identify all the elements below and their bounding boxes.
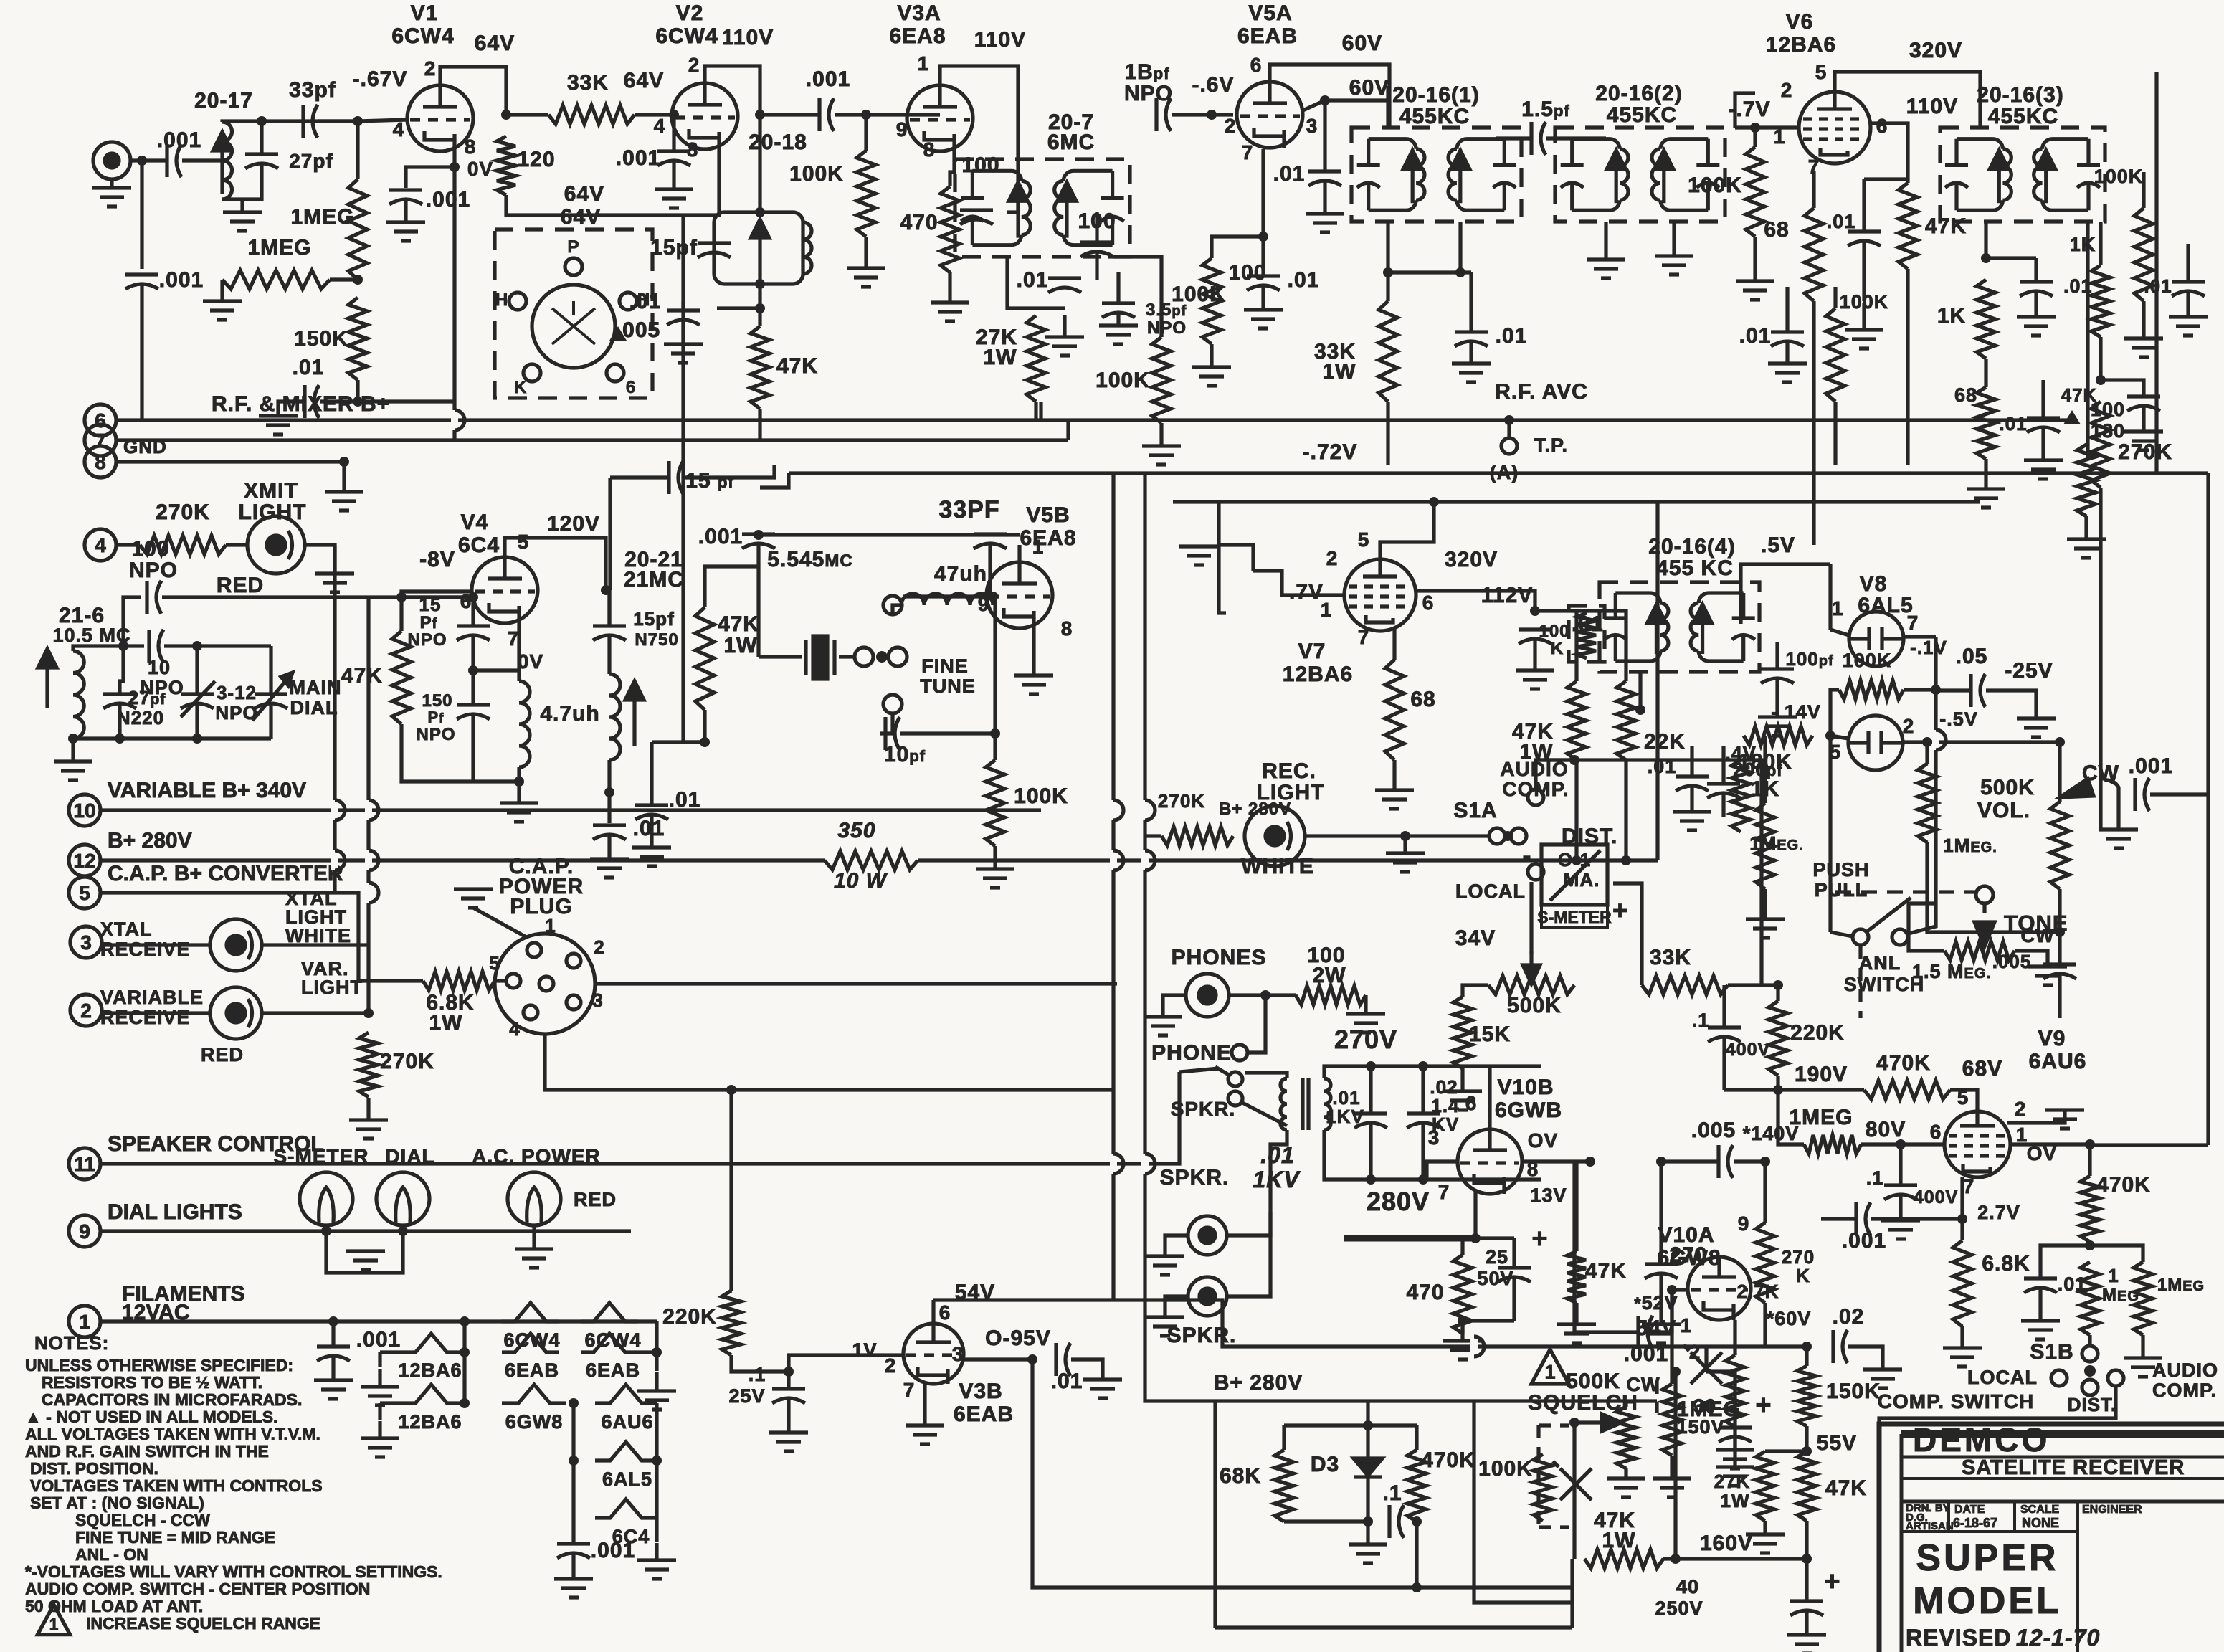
wire antenna rail down: [140, 161, 143, 269]
wire spkr jack upper gnd: [1165, 1235, 1188, 1255]
svg-text:VARIABLE: VARIABLE: [100, 987, 204, 1008]
svg-text:64V: 64V: [564, 182, 604, 206]
wire D3 bottom gnd: [1366, 1522, 1369, 1543]
wire 2.7K top: [1733, 1320, 1736, 1355]
wire 1K to cap: [2101, 380, 2144, 397]
capacitor 10pf: [885, 717, 900, 750]
svg-text:-25V: -25V: [2005, 659, 2053, 683]
svg-text:12-1-70: 12-1-70: [2016, 1625, 2100, 1651]
wire V1 cathode rail down: [452, 167, 456, 402]
svg-text:S1A: S1A: [1453, 799, 1497, 822]
wire V5B grid left rail: [903, 594, 987, 598]
wire cap to tank: [182, 158, 222, 162]
wire V2 cathode to 64V lower: [683, 149, 719, 215]
ground below can2 left: [1587, 260, 1625, 278]
ground below 4.7uh choke: [500, 803, 538, 822]
transformer 20-16(1) 455KC tuning arrow 1: [1403, 151, 1422, 204]
wire 270K to xmit light: [226, 543, 247, 546]
wire comp node to resistors: [2090, 1245, 2143, 1262]
wire grid to 1MEG: [356, 121, 359, 179]
wire 2.7K bottom gnd: [1733, 1427, 1736, 1448]
triode V4 6C4: [472, 557, 538, 623]
wire 270 bottom: [1659, 1274, 1663, 1323]
wire .01 V5B bottom: [650, 815, 653, 846]
svg-text:68: 68: [1410, 688, 1435, 711]
wire ac lamp to gnd: [532, 1225, 536, 1248]
wire 3.5pf top: [1116, 272, 1120, 303]
capacitor .01 mid column: [2027, 418, 2060, 432]
terminal 4 XMIT: [85, 529, 116, 561]
svg-text:LIGHT: LIGHT: [301, 977, 363, 998]
junction antenna node: [137, 156, 147, 166]
wire tone pot right gnd: [2015, 951, 2048, 965]
switch S1A pole: [1489, 828, 1505, 844]
wire 64V lower rail drop: [681, 215, 685, 301]
svg-text:100K: 100K: [2094, 166, 2144, 187]
capacitor .001 antenna coupling: [167, 144, 181, 177]
svg-text:K: K: [1551, 639, 1564, 658]
wire 27K right top: [1765, 1449, 1807, 1453]
junction V1 cathode 0V: [450, 162, 460, 172]
ground below .01 IF: [1452, 364, 1491, 382]
socket pin H left: [509, 293, 526, 310]
svg-text:4: 4: [393, 118, 405, 141]
wire tank bottom rail: [73, 736, 271, 740]
capacitor .01 V6 cathode: [1848, 232, 1881, 246]
lamp S-METER: [300, 1172, 353, 1225]
svg-text:S1B: S1B: [2030, 1340, 2073, 1364]
resistor 68 right column: [1977, 387, 1995, 459]
junction V4 cathode node: [468, 665, 478, 675]
wire avc left drop: [760, 473, 789, 488]
transformer 20-7 6MC tuning arrow 2: [1058, 182, 1076, 237]
fine tune switch pole: [855, 647, 873, 666]
capacitor 15pf at 20-18: [698, 243, 731, 257]
ground below dial lamps: [346, 1251, 385, 1270]
filament hump 12BA6 a: [398, 1334, 465, 1352]
svg-text:320V: 320V: [1909, 39, 1962, 62]
svg-text:5: 5: [1815, 61, 1828, 83]
ground below .01 osc: [590, 859, 629, 878]
svg-text:1: 1: [79, 1311, 90, 1333]
svg-text:.1: .1: [1692, 1010, 1710, 1031]
resistor 1.5MEG tone: [1944, 941, 2015, 960]
wire 100 bottom gnd: [1210, 344, 1213, 366]
svg-text:54V: 54V: [1636, 1316, 1676, 1340]
wire V3A plate to 110V rail: [940, 66, 1018, 212]
svg-text:150: 150: [422, 691, 452, 711]
svg-text:6EA8: 6EA8: [889, 24, 946, 48]
junction V3B out: [1027, 1354, 1037, 1364]
wire V4 grid rail: [401, 592, 472, 597]
wire V2 110 node down to 20-18: [758, 115, 761, 212]
wire V5A cath node to 100: [1212, 237, 1263, 258]
wire V8B right lead: [1903, 740, 2060, 744]
junction 33K 220K: [1773, 980, 1783, 990]
svg-text:112V: 112V: [1481, 584, 1533, 607]
capacitor .001 V10A: [1638, 1316, 1653, 1349]
svg-text:NPO: NPO: [129, 559, 178, 582]
dashed box 100K det: [1569, 606, 1605, 662]
main dial arrow: [252, 673, 293, 721]
svg-text:V10A: V10A: [1658, 1223, 1714, 1247]
junction V10B cathode: [1470, 1233, 1481, 1243]
svg-text:ANL: ANL: [1859, 952, 1901, 974]
capacitor .001 V2 grid: [657, 151, 690, 166]
wire .01 can3a top: [2034, 258, 2038, 282]
capacitor 15pf V5B: [669, 461, 683, 494]
bus B+ 280V left segment: [100, 858, 825, 862]
svg-text:.01: .01: [1017, 268, 1049, 292]
socket pin G: [607, 364, 624, 381]
wire D3 anode lead: [1366, 1425, 1369, 1458]
wire 10NPO to trimmer rail: [164, 644, 271, 647]
svg-text:1W: 1W: [429, 1011, 463, 1035]
junction V5B rail top: [754, 530, 764, 540]
ground at V9 pin2: [2045, 1110, 2084, 1129]
svg-text:33K: 33K: [1650, 946, 1691, 969]
wire V3B out down long: [1032, 1359, 1417, 1587]
svg-text:455KC: 455KC: [1988, 105, 2058, 128]
V7 grid gnd hook: [1219, 545, 1253, 571]
wire squelch left vertical lower: [1570, 1559, 1574, 1628]
svg-text:64V: 64V: [624, 69, 664, 92]
warning triangle notes: [37, 1605, 70, 1635]
junction tank bottom a: [115, 734, 125, 744]
ground below 100 V5A: [1192, 367, 1231, 386]
wire .005 top: [2058, 932, 2061, 964]
wire squelch left vertical: [1572, 1423, 1576, 1559]
wire can3 right down: [2086, 222, 2089, 459]
wire 1MEG det bottom: [1763, 889, 1767, 918]
svg-text:100K: 100K: [1096, 369, 1150, 392]
capacitor .01 at V5A: [1308, 171, 1341, 186]
capacitor .05 ANL: [1971, 674, 1985, 707]
wire filament cap bottom: [331, 1357, 335, 1379]
transformer secondary coil: [1324, 1078, 1331, 1130]
wire 20-21 bottom lead: [607, 760, 611, 792]
svg-text:.005: .005: [1691, 1119, 1736, 1142]
wire .1 400v top: [1722, 985, 1726, 1027]
wire .01 V7 screen gnd: [1533, 640, 1536, 669]
svg-text:CAPACITORS IN MICROFARADS.: CAPACITORS IN MICROFARADS.: [42, 1390, 302, 1409]
wire .1 400v bottom: [1722, 1038, 1726, 1090]
transformer core lines: [1303, 1078, 1308, 1130]
svg-text:12BA6: 12BA6: [398, 1359, 462, 1381]
wire .1 V3B bottom: [787, 1399, 790, 1431]
switch S1B audio comp: [2108, 1370, 2124, 1386]
wire squelch pot top to bus: [1624, 1401, 1627, 1407]
ground below 270K: [349, 1098, 388, 1139]
resistor 470K D3: [1407, 1450, 1426, 1522]
svg-text:400V: 400V: [1726, 1040, 1770, 1060]
junction 54V at 150K: [1802, 1342, 1812, 1352]
transformer 20-16(1) 455KC tuning arrow 2: [1451, 151, 1470, 204]
wire row5 right gnd: [655, 1518, 658, 1542]
junction 270 top: [1656, 1157, 1666, 1167]
wire .02 top: [1421, 1066, 1425, 1114]
transformer 20-16(2) 455KC tuning arrow 2: [1655, 151, 1673, 204]
svg-text:6AU6: 6AU6: [2029, 1050, 2087, 1073]
wire 120V rail to 33K 1W: [606, 590, 609, 626]
wire squelch pot bottom gnd: [1624, 1468, 1627, 1477]
bus B+280V after 350: [918, 858, 1117, 862]
wire 150pf bottom lead: [471, 715, 475, 782]
svg-text:8: 8: [923, 138, 936, 161]
svg-text:FINE TUNE = MID RANGE: FINE TUNE = MID RANGE: [75, 1528, 275, 1547]
hop x514 over bus12: [369, 850, 379, 870]
svg-text:60V: 60V: [1349, 76, 1389, 100]
capacitor .01 V3B out: [1056, 1343, 1070, 1376]
wire can1 bottom left down: [1386, 222, 1389, 272]
svg-text:2.7V: 2.7V: [1977, 1202, 2020, 1223]
wire V2 plate to 110V rail: [705, 66, 760, 115]
svg-text:120: 120: [517, 148, 555, 171]
junction V10A grid node: [1760, 1157, 1770, 1167]
svg-text:SUPER: SUPER: [1916, 1537, 2058, 1579]
svg-text:XTAL: XTAL: [100, 918, 153, 940]
capacitor .005 coupling: [1719, 1145, 1733, 1178]
resistor 270K rec light: [1161, 827, 1233, 845]
capacitor 100 under can: [1080, 242, 1113, 257]
wire D3 cathode lead: [1366, 1477, 1369, 1522]
ground below .01 V6: [1845, 303, 1883, 348]
coil 4.7uh choke: [519, 681, 530, 767]
wire vol cw to gnd: [2116, 787, 2120, 828]
wire plug right to long rail: [595, 982, 1117, 985]
svg-text:COMP.: COMP.: [2152, 1380, 2217, 1401]
resistor 270K V10A grid: [1756, 1223, 1774, 1303]
svg-text:V6: V6: [1786, 10, 1814, 34]
junction 47K top: [755, 303, 765, 313]
wire xtal jack to light rail: [262, 943, 369, 946]
svg-text:33PF: 33PF: [938, 496, 999, 523]
wire 47K bottom lead: [401, 724, 473, 782]
svg-text:PULL: PULL: [1815, 879, 1868, 901]
terminal 7: [85, 424, 116, 456]
svg-text:20-16(3): 20-16(3): [1977, 83, 2063, 107]
svg-text:Pf: Pf: [427, 708, 444, 726]
junction row2 mid: [460, 1347, 470, 1357]
junction 60V node: [1320, 95, 1330, 105]
tone pot wiper arrow: [1974, 903, 1995, 946]
socket pin K: [523, 364, 541, 381]
ground below V1 bypass cap: [386, 222, 425, 241]
svg-text:2: 2: [594, 936, 604, 958]
svg-text:SATELITE RECEIVER: SATELITE RECEIVER: [1962, 1456, 2185, 1479]
svg-text:13V: 13V: [1530, 1185, 1567, 1206]
svg-text:47K: 47K: [1585, 1259, 1627, 1283]
hop x1597 over bus12: [1145, 850, 1155, 870]
wire .001 V5B top: [756, 534, 760, 535]
junction V9 cathode node: [1957, 1214, 1967, 1224]
resistor 1MEG anl: [1918, 764, 1937, 842]
wire 33PF top: [988, 534, 992, 535]
svg-text:68K: 68K: [1220, 1464, 1261, 1488]
ground below .001 V2: [655, 189, 693, 208]
junction 150K bottom node: [353, 397, 363, 407]
wire V9 pin1 right: [2010, 1142, 2090, 1146]
wire row3 to row4 right: [655, 1403, 658, 1461]
svg-text:RED: RED: [201, 1044, 244, 1065]
svg-text:SCALE: SCALE: [2020, 1504, 2060, 1516]
socket pin H right: [619, 293, 637, 310]
bus CAP B+ converter: [100, 891, 335, 894]
wire .01 1K gnd: [2142, 407, 2145, 430]
svg-text:1K: 1K: [2070, 234, 2096, 255]
svg-text:470K: 470K: [1876, 1051, 1931, 1075]
wire terminal 2 to var jack: [102, 1011, 210, 1015]
wire 1MEG anl top: [1925, 742, 1929, 764]
resistor 500K squelch pot: [1617, 1407, 1635, 1468]
title line above cells: [1901, 1500, 2224, 1504]
junction var light rail: [363, 1008, 374, 1018]
ground below .01 comp: [2021, 1321, 2060, 1339]
svg-text:20-16(1): 20-16(1): [1392, 83, 1479, 107]
svg-text:30: 30: [1693, 1395, 1716, 1417]
svg-text:SET AT : (NO SIGNAL): SET AT : (NO SIGNAL): [30, 1494, 204, 1512]
wire .001 V9 left: [1821, 1217, 1857, 1220]
ground below 2.7K: [1716, 1450, 1754, 1468]
svg-text:4: 4: [509, 1018, 520, 1040]
wire phone term right up: [1248, 995, 1265, 1053]
wire 15pf NPO bottom: [471, 636, 475, 670]
svg-text:.7V: .7V: [1289, 580, 1324, 604]
ground below .01 can2: [1768, 364, 1807, 382]
svg-text:7: 7: [1438, 1181, 1450, 1203]
resistor 1K IF: [1977, 280, 1995, 359]
wire junction down to bus: [399, 399, 403, 403]
wire .01 comp bottom: [2038, 1288, 2042, 1319]
wire 100pf bottom: [1775, 679, 1779, 716]
wire V5A cathode down: [1261, 149, 1265, 276]
pentode V7 12BA6: [1344, 559, 1416, 631]
wire main dial bottom lead: [269, 704, 272, 739]
svg-text:100: 100: [1539, 622, 1569, 641]
ANL dashed drop: [1858, 946, 1862, 1018]
plug pin 1: [527, 943, 541, 957]
wire .02 54V right: [1848, 1347, 1883, 1368]
resistor 22K V7: [1617, 681, 1635, 760]
wire V7 top rail: [1173, 500, 1658, 503]
transformer 20-16(4) 455KC: [1600, 582, 1759, 672]
junction V10B out: [1585, 1157, 1595, 1167]
wire filament row2 join: [380, 1350, 398, 1354]
wire comp switch wire: [1879, 1386, 2116, 1424]
wire .01 1KV top: [1369, 1066, 1372, 1114]
svg-text:3: 3: [1306, 115, 1318, 137]
svg-text:FINE: FINE: [921, 655, 969, 677]
junction V1 grid: [353, 116, 363, 126]
svg-text:9: 9: [1738, 1212, 1750, 1235]
svg-text:9: 9: [79, 1220, 90, 1243]
svg-text:64V: 64V: [475, 32, 515, 55]
ground V7 grid hook: [1179, 546, 1218, 565]
hop x2056 over b280 speaker line: [1474, 1337, 1484, 1357]
resistor 47K 1W V5B: [695, 607, 714, 710]
wire det can bottom left: [1638, 672, 1642, 710]
svg-text:27K: 27K: [1714, 1471, 1751, 1492]
hop x467 over bus12: [335, 850, 345, 870]
svg-text:100K: 100K: [1688, 174, 1742, 197]
switch S1A contact local: [1528, 864, 1544, 880]
wire 64V node to 33K resistor: [506, 113, 548, 116]
coil 47uh: [901, 594, 993, 605]
capacitor .01 left V5A: [1247, 276, 1280, 290]
wire trimmer top lead: [195, 646, 199, 694]
wire 470 top hook: [1463, 1238, 1475, 1255]
wire .1 V9 top: [1899, 1144, 1902, 1185]
svg-text:6EAB: 6EAB: [954, 1402, 1014, 1426]
svg-text:350: 350: [837, 819, 875, 842]
resistor 6.8K 1W: [423, 972, 495, 990]
wire 470K D3 down: [1415, 1522, 1418, 1587]
ground for xmit light: [315, 561, 354, 592]
wire 1MEG AGC left drop: [220, 280, 224, 300]
svg-text:-.67V: -.67V: [353, 67, 408, 91]
capacitor 27pf: [245, 154, 278, 168]
svg-text:NPO: NPO: [215, 702, 257, 723]
wire 10pf right: [900, 731, 995, 735]
wire 68 bottom long: [1812, 301, 1815, 545]
wire 1MEG V10A bottom: [1670, 1456, 1673, 1477]
svg-text:V3B: V3B: [959, 1380, 1002, 1403]
wire 6.8K bottom: [1960, 1326, 1964, 1347]
svg-text:15K: 15K: [1469, 1022, 1511, 1046]
ground under 20-7 area: [1045, 315, 1084, 356]
svg-text:AUDIO COMP. SWITCH - CENTER PO: AUDIO COMP. SWITCH - CENTER POSITION: [25, 1580, 370, 1598]
wire 100K V5B bottom: [993, 846, 997, 868]
svg-text:250V: 250V: [1655, 1598, 1703, 1619]
svg-text:7: 7: [903, 1379, 916, 1401]
wire spkr term a lead: [1215, 1067, 1229, 1075]
wire grid junction to V1 grid: [358, 120, 407, 121]
svg-text:6EAB: 6EAB: [505, 1359, 559, 1381]
svg-text:2: 2: [2015, 1098, 2027, 1120]
wire can2 under cap: [1785, 287, 1789, 332]
wire V7 screen right: [1416, 591, 1535, 611]
wire 100K IF top: [1833, 287, 1837, 308]
xtal receive jack: [210, 919, 262, 971]
svg-text:.1: .1: [1866, 1167, 1884, 1189]
resistor 33K audio: [1642, 976, 1728, 994]
svg-text:1KV: 1KV: [1326, 1106, 1364, 1127]
svg-text:5: 5: [1957, 1086, 1969, 1109]
wire secondary bottom rail: [1324, 1130, 1541, 1179]
wire 470K D3 top lead: [1415, 1425, 1418, 1450]
wire 100K V5A top: [1159, 308, 1163, 337]
svg-text:5: 5: [79, 882, 90, 904]
junction V3B line joins 470K: [1412, 1582, 1422, 1592]
wire .1 V9 bottom: [1899, 1195, 1902, 1219]
ground below 270 cap: [1642, 1324, 1681, 1343]
wire .005 bottom: [2058, 974, 2061, 1018]
svg-text:PHONE: PHONE: [1151, 1041, 1232, 1065]
svg-text:21MC: 21MC: [624, 568, 684, 592]
title block outer frame: [1879, 1424, 2224, 1652]
terminal 12: [69, 845, 100, 876]
capacitor 100 NPO osc coupling: [147, 581, 161, 614]
svg-text:470: 470: [900, 211, 938, 234]
wire .01 cap top: [681, 301, 685, 310]
wire 470K V9 top: [2088, 1144, 2091, 1176]
filament hump 6AL5: [595, 1442, 657, 1461]
ground .01 1K: [2124, 432, 2163, 450]
svg-text:1K: 1K: [1751, 777, 1779, 801]
ground below .01 V5A: [1306, 214, 1344, 232]
x marker squelch a: [1553, 1461, 1592, 1500]
wire V10B plate up: [1488, 1066, 1491, 1129]
